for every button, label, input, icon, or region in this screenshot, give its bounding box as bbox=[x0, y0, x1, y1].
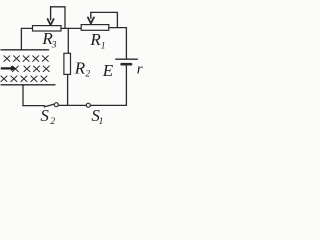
magnetic field B crosses row 2 bbox=[12, 66, 49, 72]
svg-text:2: 2 bbox=[85, 69, 90, 79]
resistor R2 body bbox=[64, 53, 71, 74]
wire: R2 top lead bbox=[67, 28, 69, 53]
wire: bottom segment S2 to S1 (node with R2 lead) bbox=[58, 104, 86, 106]
rheostat R1 wiper arrow bbox=[88, 12, 94, 23]
svg-text:2: 2 bbox=[50, 117, 55, 127]
svg-text:3: 3 bbox=[51, 41, 57, 51]
wire: R3 wiper return to right terminal bbox=[51, 7, 65, 29]
battery E short plate bbox=[122, 63, 131, 66]
magnetic field B crosses row 1 bbox=[4, 56, 48, 62]
svg-text:R: R bbox=[74, 58, 86, 77]
wire: R1 wiper return to right terminal bbox=[91, 12, 118, 27]
svg-text:1: 1 bbox=[101, 42, 106, 52]
svg-text:E: E bbox=[102, 61, 114, 80]
wire: bottom segment S1 to battery branch bbox=[90, 104, 126, 106]
switch S1 contact bbox=[86, 103, 90, 107]
top rail bbox=[1, 49, 49, 51]
wire: bottom segment left of S2 bbox=[23, 105, 45, 107]
battery E long plate bbox=[116, 58, 138, 60]
wire: bottom-left vertical from rail bbox=[22, 85, 24, 106]
rheostat R1 body bbox=[81, 25, 109, 31]
wire: rail to R3 left terminal bbox=[21, 28, 32, 49]
wire: battery bottom to bottom-right corner bbox=[125, 65, 127, 106]
wire: R3 right to R1 left (node with R2 branch) bbox=[61, 27, 81, 29]
magnetic field B crosses row 3 bbox=[1, 76, 47, 82]
svg-text:S: S bbox=[40, 106, 49, 125]
wire: R2 bottom lead bbox=[67, 74, 69, 105]
rheostat R3 wiper arrow bbox=[48, 7, 54, 25]
svg-text:R: R bbox=[89, 30, 101, 49]
wire: R1 right terminal to battery top bbox=[109, 28, 127, 59]
bottom rail bbox=[1, 84, 55, 86]
switch S2 contact bbox=[54, 103, 58, 107]
svg-text:r: r bbox=[137, 61, 143, 77]
switch S2 lever bbox=[44, 104, 54, 107]
rheostat R3 body bbox=[33, 26, 62, 31]
velocity arrow (rod motion, pointing right) bbox=[1, 66, 17, 71]
svg-text:1: 1 bbox=[99, 117, 104, 127]
